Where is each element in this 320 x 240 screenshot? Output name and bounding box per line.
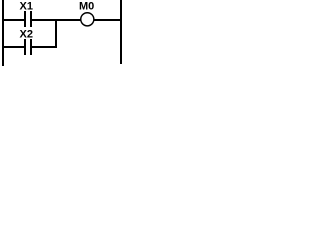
wire: coil M0 to right rail xyxy=(94,19,120,21)
contact X2 (normally open) xyxy=(24,39,32,55)
node: branch junction vertical wire xyxy=(55,19,57,48)
svg-text:X1: X1 xyxy=(20,0,33,12)
wire: left rail to contact X1 xyxy=(4,19,24,21)
wire: branch from left rail to contact X2 xyxy=(4,46,24,48)
coil M0 xyxy=(81,13,94,26)
right power rail xyxy=(120,0,122,64)
left power rail xyxy=(2,0,4,66)
svg-text:X2: X2 xyxy=(20,28,33,40)
contact X1 (normally open) xyxy=(24,11,32,27)
wire: contact X1 to coil M0 xyxy=(32,19,82,21)
wire: contact X2 to junction xyxy=(32,46,57,48)
svg-text:M0: M0 xyxy=(79,0,94,12)
